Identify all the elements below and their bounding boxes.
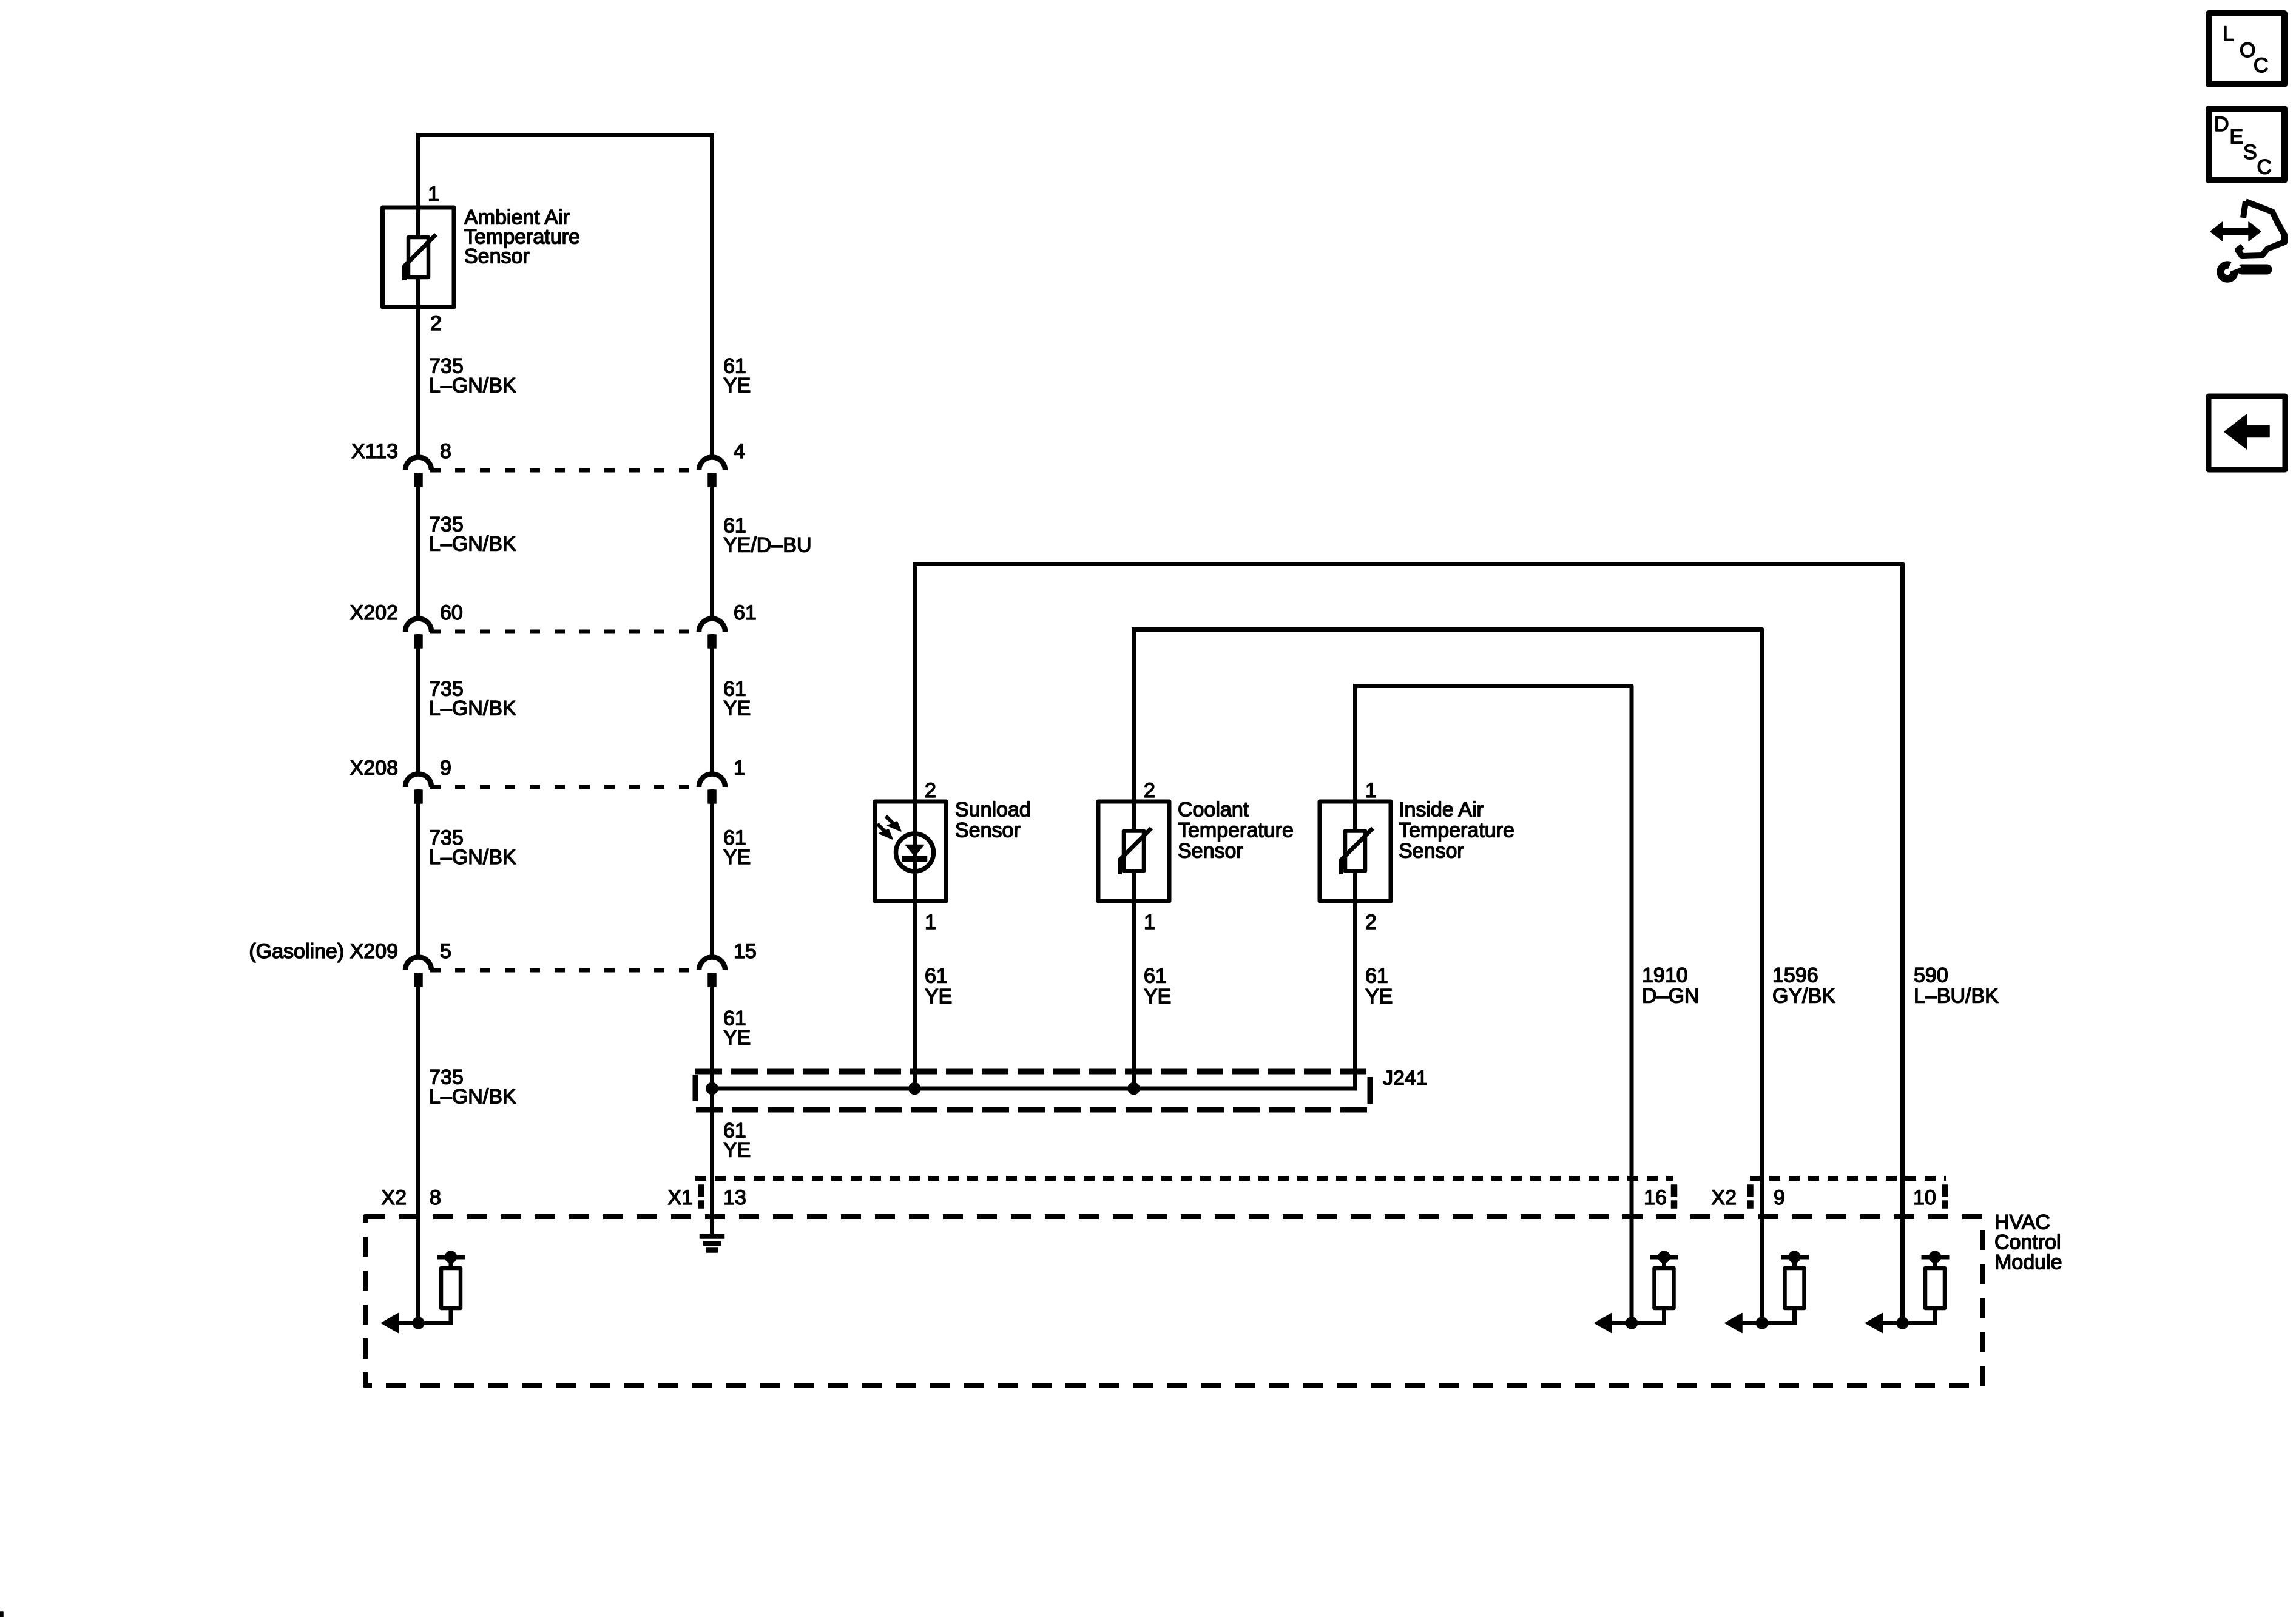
- wire label 61 YE below coolant sensor: [1144, 965, 1171, 1008]
- wire 61 YE from X209 down to splice J241: [710, 973, 714, 1089]
- stray mark at bottom left page edge: [0, 1612, 3, 1617]
- wire label 61 YE below inside-air sensor: [1365, 965, 1393, 1008]
- svg-text:9: 9: [1774, 1186, 1785, 1209]
- connector X202 female terminal arc right wire: [699, 619, 725, 632]
- pin 1 label of Sunload: [925, 911, 936, 934]
- svg-text:2: 2: [925, 779, 936, 802]
- wire inside ambient sensor box above thermistor: [416, 209, 420, 239]
- svg-text:L–GN/BK: L–GN/BK: [429, 533, 516, 556]
- svg-text:X2: X2: [381, 1186, 407, 1209]
- wire through sunload sensor: [913, 832, 917, 901]
- svg-text:1: 1: [734, 757, 745, 780]
- wire label 735 L-GN/BK segment 3: [429, 678, 516, 720]
- wire 735 L-GN/BK between X113 and X202: [416, 473, 420, 619]
- in-line connector X113 dashed mating line: [430, 468, 697, 473]
- Inside Air sensor box: [1320, 802, 1391, 901]
- pin 9 label HVAC module: [1774, 1186, 1785, 1209]
- wire label 61 YE above J241: [723, 1007, 751, 1050]
- pin 2 label of ambient air temperature sensor: [430, 312, 442, 335]
- wire label 590 L-BU/BK: [1914, 964, 1999, 1008]
- svg-text:1596: 1596: [1772, 964, 1818, 987]
- wire coolant sensor pin 1 down to splice J241: [1132, 901, 1136, 1089]
- wire label 61 YE segment 4: [723, 826, 751, 869]
- wire label 1596 GY/BK: [1772, 964, 1835, 1008]
- resistor and signal arrow inside module at pin X2-8: [382, 1251, 465, 1333]
- connector X202 male terminal tick left wire: [414, 635, 422, 648]
- light arrow 1 into sunload photodiode: [886, 816, 901, 831]
- pin 1 label of ambient air temperature sensor: [428, 183, 439, 206]
- label J241: [1383, 1067, 1428, 1090]
- svg-text:YE: YE: [925, 985, 952, 1008]
- svg-text:9: 9: [440, 757, 451, 780]
- resistor and signal arrow inside module at pin 9: [1725, 1251, 1809, 1333]
- connector X208 male terminal tick right wire: [708, 790, 716, 803]
- connector X209 female terminal arc left wire: [405, 957, 431, 971]
- wire 1910 D-GN horizontal run from inside-air sensor: [1353, 686, 1632, 1323]
- wire inside inside-air sensor box below thermistor: [1353, 869, 1357, 901]
- thermistor symbol inside coolant temperature sensor: [1120, 828, 1152, 874]
- pin 1 label at connector X208 right: [734, 757, 745, 780]
- pin 2 label of Sunload: [925, 779, 936, 802]
- svg-text:Sensor: Sensor: [1178, 840, 1243, 863]
- wire label 735 L-GN/BK segment 1: [429, 355, 516, 397]
- connector X209 female terminal arc right wire: [699, 957, 725, 971]
- connector X202 female terminal arc left wire: [405, 619, 431, 632]
- in-line connector X209 dashed mating line: [430, 968, 697, 973]
- DESC icon box: [2209, 109, 2284, 180]
- light arrow 2 into sunload photodiode: [877, 824, 893, 839]
- svg-text:13: 13: [723, 1186, 746, 1209]
- wire 735 L-GN/BK between X202 and X208: [416, 634, 420, 774]
- svg-text:C: C: [2257, 156, 2272, 179]
- wire left column from top to ambient sensor pin 1: [416, 133, 420, 209]
- svg-text:61: 61: [1365, 965, 1388, 988]
- pin 60 label at connector X202 left: [440, 601, 463, 624]
- wire inside inside-air sensor box above thermistor: [1353, 802, 1357, 832]
- LOC icon box: [2209, 13, 2284, 84]
- svg-text:C: C: [2254, 54, 2269, 77]
- photodiode triangle of sunload sensor: [906, 845, 924, 857]
- svg-text:YE: YE: [1144, 985, 1171, 1008]
- svg-text:YE: YE: [1365, 985, 1393, 1008]
- svg-text:15: 15: [734, 940, 757, 963]
- wire inside ambient sensor box below thermistor: [416, 275, 420, 307]
- pin 2 label of Inside Air: [1365, 911, 1377, 934]
- wire 61 YE/D-BU between X113 and X202: [710, 473, 714, 619]
- pin 15 label at connector X209 right: [734, 940, 757, 963]
- svg-text:YE: YE: [723, 846, 751, 869]
- thermistor symbol inside inside-air temperature sensor: [1342, 828, 1373, 874]
- svg-text:2: 2: [1144, 779, 1155, 802]
- wire inside air temperature sensor pin 1 riser: [1353, 686, 1357, 832]
- connector X208 female terminal arc left wire: [405, 774, 431, 788]
- wire splice bus J241: [712, 1087, 1358, 1091]
- svg-text:61: 61: [1144, 965, 1167, 988]
- connector bracket mark at X2-9: [1747, 1185, 1753, 1208]
- connector X208 male terminal tick left wire: [414, 790, 422, 803]
- pin 2 label of Coolant: [1144, 779, 1155, 802]
- wire label 61 YE/D-BU segment 2: [723, 515, 812, 557]
- svg-text:5: 5: [440, 940, 451, 963]
- svg-text:2: 2: [1365, 911, 1377, 934]
- in-line connector X208 dashed mating line: [430, 785, 697, 789]
- ambient air temperature sensor box: [383, 208, 454, 307]
- back arrow icon box: [2209, 396, 2285, 470]
- wire label 1910 D-GN: [1642, 964, 1699, 1008]
- svg-text:8: 8: [430, 1186, 441, 1209]
- svg-text:YE: YE: [723, 697, 751, 720]
- connector X113 male terminal tick left wire: [414, 473, 422, 487]
- svg-text:Sensor: Sensor: [955, 819, 1021, 842]
- photodiode symbol circle of sunload sensor: [896, 834, 934, 871]
- wire 590 L-BU/BK horizontal run from sunload sensor: [913, 564, 1903, 1323]
- svg-text:YE: YE: [723, 1139, 751, 1162]
- connector X202 male terminal tick right wire: [708, 635, 716, 648]
- svg-text:YE: YE: [723, 374, 751, 397]
- resistor and signal arrow inside module at pin 16: [1595, 1251, 1678, 1333]
- wire 61 YE between X208 and X209: [710, 789, 714, 957]
- thermistor symbol inside ambient air temperature sensor: [405, 235, 436, 281]
- svg-text:61: 61: [734, 601, 757, 624]
- ground symbol at HVAC pin X1-13: [700, 1234, 724, 1252]
- wire 1596 GY/BK horizontal run from coolant sensor: [1132, 630, 1762, 1323]
- wire inside coolant sensor box above thermistor: [1132, 802, 1136, 832]
- svg-text:1910: 1910: [1642, 964, 1688, 987]
- svg-text:L–GN/BK: L–GN/BK: [429, 697, 516, 720]
- svg-text:X113: X113: [351, 440, 398, 463]
- pin 10 label HVAC module: [1913, 1186, 1936, 1209]
- wire label 735 L-GN/BK segment 2: [429, 513, 516, 556]
- svg-text:1: 1: [428, 183, 439, 206]
- junction dot J241 at ground drop: [706, 1083, 718, 1095]
- label X2 at HVAC pin 8: [381, 1186, 407, 1209]
- pin 8 label at connector X113 left: [440, 440, 451, 463]
- connector X113 female terminal arc left wire: [405, 457, 431, 471]
- svg-text:X208: X208: [350, 757, 398, 780]
- wire inside-air sensor pin 2 down to splice J241: [1353, 901, 1357, 1091]
- wire 735 L-GN/BK from X209 down to HVAC module pin X2-8: [416, 973, 420, 1323]
- connector bracket mark at X1-13: [698, 1185, 704, 1208]
- pin 1 label of Inside Air: [1365, 779, 1377, 802]
- HVAC connector dotted line segment left: [695, 1176, 1673, 1181]
- pin 13 label HVAC module: [723, 1186, 746, 1209]
- connector label X113: [351, 440, 398, 463]
- svg-text:10: 10: [1913, 1186, 1936, 1209]
- label HVAC Control Module: [1994, 1211, 2062, 1274]
- DESC icon letters: [2214, 113, 2272, 179]
- wire coolant temperature sensor pin 2 riser: [1132, 630, 1136, 832]
- wire 61 YE between X202 and X208: [710, 634, 714, 774]
- svg-text:(Gasoline) X209: (Gasoline) X209: [249, 940, 398, 963]
- svg-text:Sensor: Sensor: [464, 245, 530, 268]
- svg-text:L–BU/BK: L–BU/BK: [1914, 985, 1999, 1008]
- wire label 735 L-GN/BK segment 4: [429, 826, 516, 869]
- svg-text:Module: Module: [1994, 1251, 2062, 1274]
- pin 5 label at connector X209 left: [440, 940, 451, 963]
- HVAC control module dashed box: [365, 1217, 1983, 1386]
- svg-text:Temperature: Temperature: [1399, 819, 1514, 842]
- svg-text:Sensor: Sensor: [1399, 840, 1464, 863]
- svg-text:2: 2: [430, 312, 442, 335]
- svg-text:L–GN/BK: L–GN/BK: [429, 374, 516, 397]
- svg-text:60: 60: [440, 601, 463, 624]
- connector label (Gasoline) X209: [249, 940, 398, 963]
- wire label 61 YE below J241: [723, 1119, 751, 1162]
- connector X209 male terminal tick left wire: [414, 973, 422, 987]
- pin 61 label at connector X202 right: [734, 601, 757, 624]
- wire 735 L-GN/BK between X208 and X209: [416, 789, 420, 957]
- compare-connector diagnostic icon (double arrow, connector outline, wrench): [2210, 201, 2284, 279]
- junction dot J241 at coolant drop: [1128, 1083, 1140, 1095]
- junction dot J241 at sunload drop: [909, 1083, 920, 1095]
- svg-text:GY/BK: GY/BK: [1772, 985, 1835, 1008]
- in-line connector X202 dashed mating line: [430, 630, 697, 634]
- resistor and signal arrow inside module at pin 10: [1866, 1251, 1950, 1333]
- svg-text:L–GN/BK: L–GN/BK: [429, 846, 516, 869]
- svg-text:4: 4: [734, 440, 745, 463]
- pin 1 label of Coolant: [1144, 911, 1155, 934]
- svg-text:J241: J241: [1383, 1067, 1428, 1090]
- connector X113 female terminal arc right wire: [699, 457, 725, 471]
- svg-text:YE/D–BU: YE/D–BU: [723, 534, 812, 557]
- label Sunload Sensor: [955, 798, 1031, 842]
- svg-text:590: 590: [1914, 964, 1948, 987]
- svg-text:E: E: [2230, 126, 2244, 149]
- connector bracket mark at pin 16: [1672, 1185, 1677, 1208]
- label X1 at HVAC pin 13: [667, 1186, 693, 1209]
- svg-text:16: 16: [1644, 1186, 1667, 1209]
- photodiode cathode bar of sunload sensor: [903, 856, 927, 862]
- svg-text:1: 1: [1144, 911, 1155, 934]
- svg-text:Temperature: Temperature: [1178, 819, 1294, 842]
- Coolant sensor box: [1098, 802, 1169, 901]
- svg-text:Sunload: Sunload: [955, 798, 1031, 822]
- wire label 61 YE segment 3: [723, 678, 751, 720]
- wire right column pin 4 riser from top: [710, 135, 714, 458]
- HVAC connector dotted line segment right: [1750, 1176, 1946, 1181]
- wire sunload sensor pin 1 down to splice J241: [913, 901, 917, 1089]
- connector X209 male terminal tick right wire: [708, 973, 716, 987]
- splice J241 dashed box: [695, 1072, 1370, 1110]
- label X2 at HVAC pin 9: [1711, 1186, 1737, 1209]
- svg-text:X1: X1: [667, 1186, 693, 1209]
- wire ambient sensor pin 2 down to connector X113 pin 8: [416, 307, 420, 457]
- connector label X202: [350, 601, 398, 624]
- wire top horizontal between ambient sensor pins 1 and 4 branch: [416, 133, 714, 137]
- wire label 735 L-GN/BK segment 5: [429, 1066, 516, 1109]
- connector X113 male terminal tick right wire: [708, 473, 716, 487]
- wire inside coolant sensor box below thermistor: [1132, 869, 1136, 901]
- svg-text:YE: YE: [723, 1027, 751, 1050]
- svg-text:8: 8: [440, 440, 451, 463]
- connector X208 female terminal arc right wire: [699, 774, 725, 788]
- svg-text:L–GN/BK: L–GN/BK: [429, 1085, 516, 1109]
- connector label X208: [350, 757, 398, 780]
- svg-text:Coolant: Coolant: [1178, 798, 1249, 822]
- svg-text:X2: X2: [1711, 1186, 1737, 1209]
- label Ambient Air Temperature Sensor: [464, 206, 580, 268]
- LOC icon letters: [2223, 22, 2269, 77]
- pin 16 label HVAC module: [1644, 1186, 1667, 1209]
- pin 9 label at connector X208 left: [440, 757, 451, 780]
- wire 61 YE from J241 to HVAC module pin X1-13 ground: [710, 1089, 714, 1234]
- pin 4 label at connector X113 right: [734, 440, 745, 463]
- wire label 61 YE segment 1: [723, 355, 751, 397]
- label Inside Air Temperature Sensor: [1399, 798, 1514, 863]
- Sunload sensor box: [875, 802, 946, 901]
- svg-text:Inside Air: Inside Air: [1399, 798, 1484, 822]
- wire sunload sensor pin 2 riser: [913, 564, 917, 832]
- svg-text:S: S: [2243, 141, 2257, 164]
- svg-text:1: 1: [1365, 779, 1377, 802]
- svg-text:61: 61: [925, 965, 948, 988]
- pin 8 label HVAC module: [430, 1186, 441, 1209]
- svg-text:X202: X202: [350, 601, 398, 624]
- svg-text:D–GN: D–GN: [1642, 985, 1699, 1008]
- connector bracket mark at pin 10: [1942, 1185, 1948, 1208]
- svg-text:L: L: [2223, 22, 2234, 46]
- label Coolant Temperature Sensor: [1178, 798, 1294, 863]
- back arrow icon arrow: [2224, 414, 2269, 449]
- svg-text:1: 1: [925, 911, 936, 934]
- svg-text:D: D: [2214, 113, 2229, 136]
- wire label 61 YE below sunload sensor: [925, 965, 952, 1008]
